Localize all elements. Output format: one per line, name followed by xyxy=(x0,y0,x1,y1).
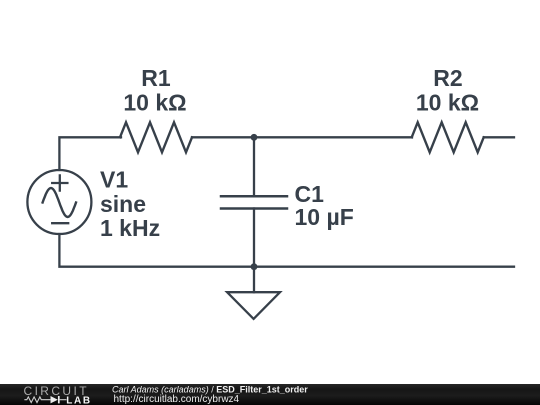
svg-text:sine: sine xyxy=(100,191,146,217)
svg-text:10 kΩ: 10 kΩ xyxy=(416,90,479,116)
svg-text:LAB: LAB xyxy=(66,396,91,405)
resistor R1 xyxy=(120,122,192,152)
node junction top xyxy=(251,134,258,141)
wire bottom rail right xyxy=(254,266,514,268)
node junction bottom xyxy=(251,263,258,270)
resistor R2 xyxy=(412,122,484,152)
ground xyxy=(227,267,280,319)
svg-text:R2: R2 xyxy=(433,65,462,91)
svg-text:10 µF: 10 µF xyxy=(295,204,354,230)
svg-text:V1: V1 xyxy=(100,167,128,193)
wire cap-top (node to C1) xyxy=(253,137,255,196)
wire top-middle (R1 to R2) xyxy=(192,136,412,138)
wire top-right (R2 output) xyxy=(484,136,514,138)
svg-text:10 kΩ: 10 kΩ xyxy=(123,90,186,116)
footer bar xyxy=(0,384,540,405)
svg-text:1 kHz: 1 kHz xyxy=(100,215,160,241)
capacitor C1 xyxy=(221,196,287,208)
svg-text:http://circuitlab.com/cybrwz4: http://circuitlab.com/cybrwz4 xyxy=(114,394,240,405)
svg-text:R1: R1 xyxy=(141,65,171,91)
wire left-bottom (V1 to bottom rail) xyxy=(59,234,254,267)
voltage source V1 xyxy=(27,170,91,234)
wire cap-bottom (C1 to bottom rail) xyxy=(253,209,255,267)
wire top-left (V1 to R1) xyxy=(59,137,121,170)
CircuitLab logo xyxy=(24,384,92,405)
svg-text:C1: C1 xyxy=(295,181,325,207)
